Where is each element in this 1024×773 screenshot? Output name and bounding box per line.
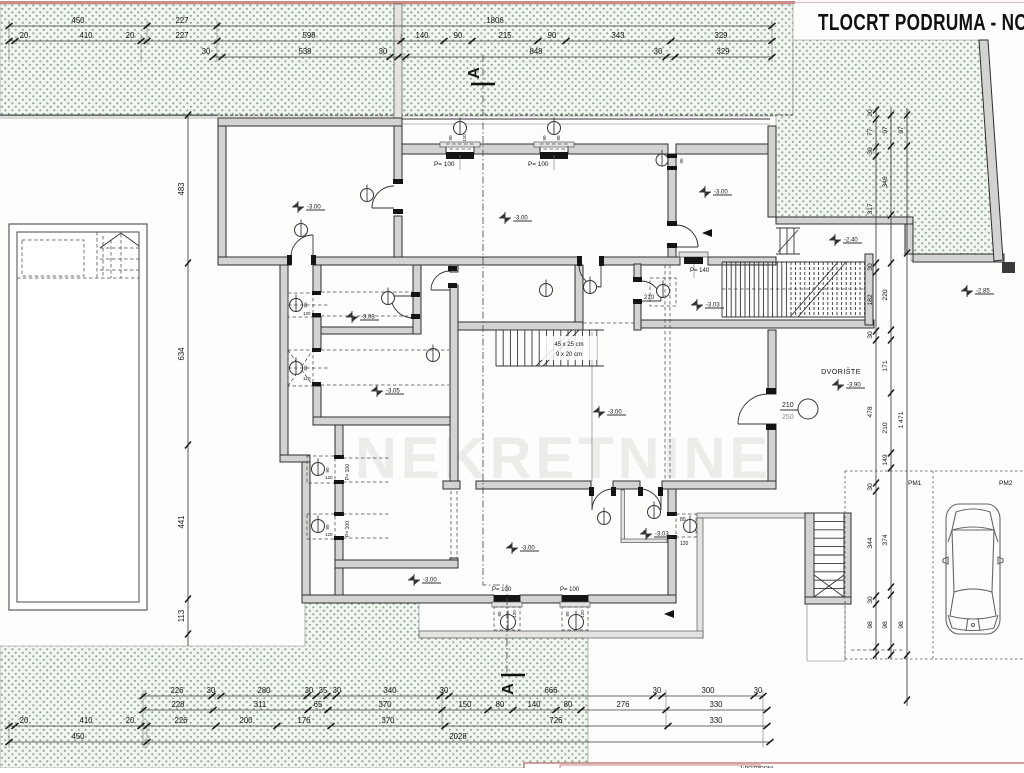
door D1 (291, 235, 313, 257)
svg-text:340: 340 (383, 686, 397, 695)
svg-text:30: 30 (202, 47, 211, 56)
svg-text:210: 210 (782, 402, 794, 409)
dim right vertical V3 (898, 108, 910, 706)
dashed line right of terrace (851, 649, 905, 651)
direction arrows (702, 229, 712, 237)
svg-text:30: 30 (305, 686, 314, 695)
svg-text:30: 30 (754, 686, 763, 695)
wc fixture (295, 224, 308, 237)
svg-text:182: 182 (867, 294, 874, 306)
svg-text:98: 98 (882, 621, 889, 629)
corridor wall h (443, 481, 460, 489)
car top view (943, 504, 1003, 634)
svg-text:20: 20 (867, 109, 874, 117)
level marker (346, 311, 379, 323)
section line A-A (483, 55, 507, 676)
svg-text:80: 80 (565, 611, 570, 617)
garden fence wall (394, 4, 402, 144)
level marker (640, 528, 673, 540)
svg-text:120: 120 (303, 376, 311, 381)
dim bottom row2 (140, 700, 771, 713)
green band dashed boundary (0, 114, 793, 116)
svg-text:P= 100: P= 100 (528, 161, 549, 168)
svg-text:30: 30 (654, 47, 663, 56)
wall right outer mid (768, 330, 776, 394)
svg-text:20: 20 (20, 31, 29, 40)
wall stair east (865, 254, 873, 325)
dim left vertical (177, 112, 191, 647)
wall below outdoor stairs (805, 597, 851, 604)
svg-text:634: 634 (177, 347, 186, 361)
svg-text:538: 538 (298, 47, 311, 56)
svg-text:300: 300 (701, 686, 715, 695)
dim row C top (202, 47, 776, 60)
svg-text:45 x 25 cm: 45 x 25 cm (554, 342, 583, 348)
svg-text:30: 30 (867, 331, 874, 339)
dim extension lines top (9, 20, 772, 62)
corridor door 1 (592, 489, 613, 510)
svg-text:20: 20 (20, 716, 29, 725)
svg-text:120: 120 (325, 475, 333, 480)
level marker (371, 385, 404, 397)
wall h mid-left (313, 417, 458, 425)
svg-text:150: 150 (458, 700, 472, 709)
wall west windowed upper (313, 265, 321, 292)
site wall top right horiz (776, 217, 913, 224)
door D8 courtyard (738, 394, 768, 424)
svg-text:A: A (500, 683, 517, 695)
svg-text:410: 410 (79, 31, 93, 40)
svg-text:98: 98 (898, 621, 905, 629)
svg-text:30: 30 (440, 686, 449, 695)
svg-text:1806: 1806 (486, 16, 503, 25)
dim right vertical V1 (867, 107, 879, 660)
dim row B top (6, 31, 776, 44)
lightwell window in middle wall (679, 252, 708, 278)
wall right of outdoor stairs (844, 513, 851, 600)
green area bottom (0, 603, 588, 768)
level marker (832, 379, 865, 391)
slanted site wall right (979, 40, 1003, 261)
dim extension lines bottom (9, 690, 763, 748)
wall v east lower with window (668, 489, 676, 514)
svg-text:370: 370 (378, 700, 392, 709)
svg-text:80: 80 (325, 524, 330, 530)
service channel dashed (664, 265, 666, 481)
swimming pool outer (9, 224, 147, 610)
dashed partition (450, 491, 452, 558)
level marker (961, 285, 994, 297)
door in v wall (431, 271, 450, 290)
svg-text:330: 330 (709, 700, 723, 709)
svg-text:97: 97 (898, 126, 905, 134)
lightwell window 2 (528, 118, 574, 171)
terrace below stairs (807, 604, 845, 661)
svg-text:P= 100: P= 100 (345, 521, 351, 537)
svg-text:149: 149 (882, 454, 889, 466)
svg-text:90: 90 (556, 135, 561, 141)
dim right vertical V2 (882, 108, 894, 659)
wall step stub (280, 455, 310, 462)
courtyard wall bottom (419, 631, 703, 638)
svg-text:20: 20 (126, 31, 135, 40)
level marker (292, 201, 325, 213)
svg-text:P= 100: P= 100 (560, 587, 580, 593)
bottom outer wall (302, 595, 494, 603)
wc fixture (540, 284, 553, 297)
svg-text:30: 30 (867, 263, 874, 271)
parking boundary dashed (845, 471, 1024, 659)
svg-text:120: 120 (325, 532, 333, 537)
wc fixture (382, 292, 395, 305)
pool stair dashes (100, 233, 139, 278)
svg-text:98: 98 (867, 621, 874, 629)
svg-text:120: 120 (680, 541, 689, 547)
svg-text:80: 80 (496, 700, 505, 709)
level marker (408, 574, 441, 586)
svg-text:215: 215 (498, 31, 512, 40)
svg-text:P= 100: P= 100 (345, 464, 351, 480)
svg-text:140: 140 (527, 700, 541, 709)
dim bottom row4 (6, 732, 774, 745)
svg-text:PM2: PM2 (999, 480, 1013, 487)
niche window 1 (307, 455, 351, 484)
door D3 (579, 265, 601, 287)
svg-text:483: 483 (177, 182, 186, 195)
svg-text:90: 90 (542, 135, 547, 141)
long middle wall (218, 257, 291, 265)
svg-text:210: 210 (882, 422, 889, 434)
outdoor staircase (805, 513, 814, 599)
svg-text:PM1: PM1 (908, 480, 922, 487)
green area top band (0, 4, 793, 116)
east window lower (667, 512, 697, 547)
wall top left thick (218, 118, 402, 126)
level marker (699, 186, 732, 198)
svg-text:80: 80 (680, 517, 686, 523)
dim bottom row3 (6, 716, 771, 729)
svg-text:97: 97 (882, 126, 889, 134)
svg-text:30: 30 (867, 483, 874, 491)
wall v stair left (575, 265, 583, 322)
door D7 (676, 225, 698, 247)
svg-text:171: 171 (882, 360, 889, 372)
wall v mid left (450, 265, 458, 272)
svg-text:478: 478 (867, 406, 874, 418)
svg-text:140: 140 (415, 31, 429, 40)
svg-text:450: 450 (71, 16, 85, 25)
svg-text:200: 200 (239, 716, 253, 725)
site wall step vert (905, 224, 913, 254)
svg-text:TLOCRT PODRUMA - NOVO: TLOCRT PODRUMA - NOVO (818, 9, 1024, 35)
green area top right (776, 40, 1002, 261)
courtyard wall left (697, 518, 703, 638)
svg-text:276: 276 (616, 700, 629, 709)
svg-text:35: 35 (319, 686, 328, 695)
wall above stairs (458, 322, 583, 330)
wall h interior bottom (335, 560, 458, 568)
wall left outer lower (302, 462, 310, 603)
wall top with lightwells (402, 144, 446, 154)
site boundary line left (0, 114, 218, 116)
big staircase (722, 262, 865, 317)
svg-text:90: 90 (679, 158, 684, 164)
wall interior v2 with window (668, 154, 676, 225)
dim row A top (6, 16, 776, 29)
svg-text:410: 410 (79, 716, 93, 725)
svg-text:848: 848 (529, 47, 542, 56)
svg-text:726: 726 (549, 716, 562, 725)
svg-text:A: A (466, 67, 483, 79)
door small room (391, 296, 413, 318)
wall by stairs v (634, 264, 641, 278)
svg-text:450: 450 (71, 732, 85, 741)
svg-text:30: 30 (379, 47, 388, 56)
wc fixture (598, 512, 611, 525)
svg-text:227: 227 (175, 16, 188, 25)
svg-text:226: 226 (174, 716, 187, 725)
svg-text:374: 374 (882, 534, 889, 546)
wall below big stairs (641, 320, 874, 328)
svg-text:120: 120 (512, 610, 517, 618)
svg-text:228: 228 (171, 700, 184, 709)
svg-text:330: 330 (709, 716, 723, 725)
svg-text:120: 120 (303, 311, 311, 316)
svg-text:90: 90 (448, 135, 453, 141)
wc fixture (648, 506, 661, 519)
svg-text:176: 176 (297, 716, 310, 725)
svg-text:280: 280 (257, 686, 271, 695)
wall h small room (321, 327, 421, 334)
site wall right horiz (913, 254, 1004, 262)
dashed beam line (583, 322, 641, 324)
svg-text:30: 30 (653, 686, 662, 695)
svg-text:250: 250 (782, 414, 794, 421)
wall right outer upper (768, 126, 776, 217)
corner block (1002, 262, 1015, 273)
svg-text:226: 226 (170, 686, 183, 695)
upper niche window 1 (288, 291, 321, 317)
wc fixture (584, 281, 597, 294)
corridor door 2 (640, 489, 661, 510)
swimming pool inner (17, 232, 139, 602)
svg-text:317: 317 (867, 203, 874, 215)
svg-text:9 x 20 cm: 9 x 20 cm (556, 352, 582, 358)
svg-text:113: 113 (177, 610, 186, 622)
red frame of next drawing (524, 763, 1024, 773)
svg-text:227: 227 (175, 31, 188, 40)
svg-text:DVORIŠTE: DVORIŠTE (821, 367, 861, 376)
level marker (593, 406, 626, 418)
svg-text:P= 100: P= 100 (434, 161, 455, 168)
svg-text:2028: 2028 (449, 732, 466, 741)
svg-text:30: 30 (333, 686, 342, 695)
lightwell window 1 (434, 118, 480, 171)
svg-text:77: 77 (867, 128, 874, 136)
level marker (499, 212, 532, 224)
svg-text:80: 80 (564, 700, 573, 709)
svg-text:P= 140: P= 140 (690, 268, 710, 274)
title (818, 9, 1024, 35)
door by stairs (641, 281, 661, 301)
svg-text:1 471: 1 471 (898, 411, 905, 428)
svg-text:346: 346 (882, 176, 889, 188)
bottom lightwell 2 (560, 587, 590, 630)
level marker (506, 542, 539, 554)
svg-text:329: 329 (716, 47, 729, 56)
svg-text:370: 370 (381, 716, 395, 725)
pink site limit line top (0, 1, 795, 4)
wall windows west (335, 417, 343, 458)
svg-text:598: 598 (302, 31, 315, 40)
courtyard wall top (697, 513, 813, 518)
svg-text:344: 344 (867, 537, 874, 549)
svg-text:80: 80 (497, 611, 502, 617)
wc fixture (361, 189, 374, 202)
svg-text:90: 90 (454, 31, 463, 40)
small entry steps (776, 228, 800, 254)
pool shallow dashed zone (17, 232, 139, 278)
svg-text:329: 329 (714, 31, 727, 40)
mid staircase (496, 330, 604, 366)
room dashed guides (288, 292, 449, 538)
svg-text:120: 120 (580, 610, 585, 618)
wc fixture (427, 349, 440, 362)
svg-text:220: 220 (882, 289, 889, 301)
svg-text:80: 80 (325, 467, 330, 473)
bottom lightwell 1 (492, 587, 522, 630)
svg-text:441: 441 (177, 515, 186, 528)
wc niche by stairs (650, 278, 676, 306)
level marker (691, 299, 724, 311)
wc fixture (657, 285, 670, 298)
upper niche window 2 (288, 348, 321, 386)
level marker (829, 234, 862, 246)
door D6 (372, 186, 394, 208)
svg-text:30: 30 (867, 596, 874, 604)
wall v small room (413, 265, 421, 334)
dim bottom row1 (140, 686, 767, 699)
svg-text:311: 311 (254, 700, 266, 709)
wall left outer (218, 126, 226, 265)
svg-text:666: 666 (544, 686, 557, 695)
terrace edge double line (402, 118, 770, 120)
thin partition walls (621, 490, 625, 542)
svg-text:210: 210 (644, 295, 655, 301)
svg-text:343: 343 (611, 31, 624, 40)
corridor thin edge (591, 332, 593, 481)
svg-text:65: 65 (314, 700, 323, 709)
svg-text:20: 20 (126, 716, 135, 725)
niche window 2 (307, 512, 351, 540)
wall left lower v (280, 265, 288, 462)
wall interior v1 (394, 126, 402, 182)
svg-text:30: 30 (207, 686, 216, 695)
svg-text:90: 90 (548, 31, 557, 40)
svg-text:P= 100: P= 100 (492, 587, 512, 593)
svg-text:30: 30 (867, 147, 874, 155)
svg-text:110: 110 (462, 134, 467, 142)
